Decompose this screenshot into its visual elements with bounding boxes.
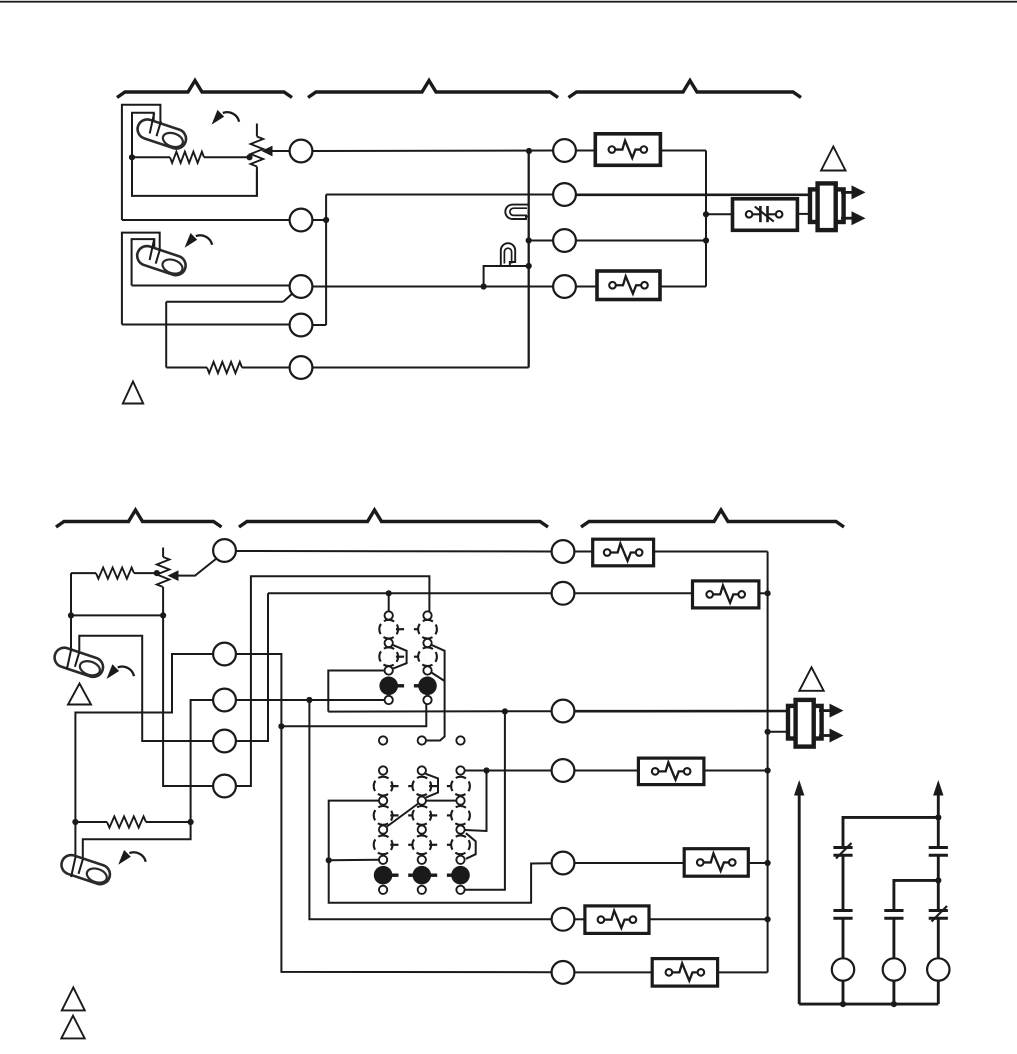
terminal B3 [552, 700, 575, 723]
wire: inner loop bottom (pot return) [132, 157, 257, 196]
wire: contactor to connector 1 [797, 213, 811, 215]
wire: right branch mid [937, 855, 940, 910]
wire: boxL5 to bus [649, 918, 768, 920]
wire: boxL3 to bus [704, 770, 768, 772]
warning triangle 5 [62, 987, 85, 1010]
wire: right branch to motor [937, 918, 940, 958]
junction: right lead y=880 [935, 877, 941, 883]
motor M3 [927, 958, 949, 980]
wire: row711 to connector 2 [574, 710, 789, 713]
motor M2 [883, 958, 905, 980]
wire: row 195 to connector 1 [576, 193, 811, 196]
resistor 3 zigzag [96, 568, 134, 579]
switch grid 2 contacts [379, 766, 387, 774]
wire: grid2 left hook row800 [329, 801, 552, 903]
resistor 4 zigzag [107, 816, 146, 827]
wire: diagonal into terminal 3 [283, 293, 293, 302]
junction: lamp2 on row 286 [481, 283, 487, 289]
junction: bus connector2 [765, 729, 771, 735]
wire: inner loop thermostat 2 [132, 239, 155, 285]
warning triangle 1 [123, 382, 143, 404]
switch grid 1 blade A [393, 645, 407, 669]
grid2 top circle C1 [379, 736, 387, 744]
wire: row 286 middle [312, 286, 553, 288]
junction: row711 x=505 [502, 708, 508, 714]
connector 1 (plug) [810, 189, 844, 222]
wire: gridB bottom loop [281, 704, 426, 726]
arrow out 2a [819, 709, 830, 712]
mercury switch 2 [135, 243, 189, 277]
wire: row 654 right to bottom [236, 654, 552, 972]
arrow out 1b [841, 217, 852, 220]
potentiometer 2 top lead [162, 548, 164, 558]
junction: pot2 bottom [160, 612, 166, 618]
heater box 2 [597, 271, 660, 300]
potentiometer 1 bottom lead [256, 167, 258, 197]
grid2 top circle C2 [418, 736, 426, 744]
junction: resistor left [129, 154, 135, 160]
junction: bus row770 [765, 767, 771, 773]
junction: x=326 row220 [323, 217, 329, 223]
junction: row593 gridA [386, 590, 392, 596]
wire: row 367 left [166, 367, 207, 369]
junction: pot2 left [154, 570, 160, 576]
wire: row 240 to bus2 [576, 240, 706, 242]
junction: bus2 row240 [703, 237, 709, 243]
junction: bus row919 [765, 916, 771, 922]
wire: x=486 down to C3 [465, 771, 487, 832]
junction: bus lamp2 [526, 263, 532, 269]
junction: resistor4 right [188, 819, 194, 825]
rotation arrow 1 [223, 112, 239, 122]
wire: box2 to bus2 [660, 286, 706, 288]
heater box 1 [595, 134, 660, 166]
indicator lamp 2 (opens down) [501, 243, 515, 266]
terminal 1 (thermostat) [290, 140, 313, 163]
arrow out 2b [819, 734, 830, 737]
resistor 4 wire right [146, 821, 191, 823]
mercury switch 4 [59, 852, 113, 886]
wiper arrow 2 [168, 570, 179, 581]
wire: outer loop thermostat 2 [122, 233, 160, 325]
potentiometer 2 bottom lead [162, 587, 164, 615]
power lead right with arrow [937, 794, 940, 848]
junction: pot 1 wiper [246, 154, 252, 160]
wire: vertical x=71 [70, 573, 72, 651]
wire: branch to middle capacitor [894, 880, 938, 910]
warning triangle 6 [61, 1016, 84, 1039]
heater box L5 [585, 906, 649, 934]
switch grid 1 linkage dashes [396, 628, 404, 630]
wire: branch to left capacitor [843, 817, 938, 847]
terminal A2 [213, 643, 236, 666]
connector 2 (plug) [788, 706, 822, 739]
switch grid 2 linkage dashes [390, 785, 398, 787]
wire: left branch to motor [842, 918, 845, 958]
brace: equipment section (top right) [569, 81, 802, 98]
wire: terminalB7 to boxL6 [574, 971, 652, 973]
wire: bus to connector 2 lower [768, 731, 789, 733]
rotation arrow 2 [196, 235, 212, 245]
heater box L1 [593, 539, 654, 566]
potentiometer 2 zigzag [157, 557, 170, 587]
wire: vertical x=326 [325, 195, 327, 326]
junction: row770 x=486 [483, 767, 489, 773]
wire: terminalB2 to boxL2 [574, 592, 692, 594]
junction: bus row240 [526, 237, 532, 243]
wire: bus2 to contactor box [706, 213, 733, 215]
contactor box (clock contact) [733, 199, 798, 231]
wire: gridA bottom to row700 (stub) [384, 699, 386, 701]
terminal B7 [552, 961, 575, 984]
wire: row 240 bus to terminal 8 [529, 240, 553, 242]
resistor 4 wire left [75, 821, 107, 823]
wire: terminalB5 to boxL4 [574, 862, 684, 864]
junction: x=71 y=615 [68, 612, 74, 618]
wire: boxL2 to bus [759, 592, 768, 594]
wire: row 593 horizontal [268, 592, 552, 594]
wire: outer loop thermostat 1 [122, 105, 160, 220]
brace: thermostat section (top left) [117, 81, 292, 98]
potentiometer 1 zigzag [251, 137, 264, 167]
switch grid 2 changeover diagonal [387, 804, 418, 827]
rotation arrow 3 [118, 667, 134, 677]
wire: motor M2 to bottom [892, 981, 895, 1004]
junction: x=328 y=860 [326, 857, 332, 863]
junction: right lead y=817 [935, 814, 941, 820]
terminal A1 [213, 539, 236, 562]
wire: boxL1 to bus [654, 551, 768, 553]
wire: C3 bottom to row 711 [465, 711, 505, 889]
junction: bottom M2 [891, 1001, 897, 1007]
junction: bus row863 [765, 860, 771, 866]
wire: box1 to bus2 [660, 150, 706, 152]
wire: row 367 right to bus [312, 367, 528, 369]
brace: equipment section (lower right) [581, 510, 844, 527]
terminal A4 [213, 730, 236, 753]
junction: bus1 top [526, 148, 532, 154]
wire: vertical x=166 down [165, 302, 167, 368]
wire: row 286 to heater box 2 [576, 286, 597, 288]
wire: lamp2 drop [484, 266, 529, 287]
terminal 6 (subbase) [553, 139, 576, 162]
switch grid 1 contacts [385, 611, 393, 619]
wire: row 741 right up to row 593 [236, 593, 268, 741]
brace: subbase section (lower middle) [239, 510, 548, 527]
switch grid 2 blade C3 [466, 833, 476, 859]
wire: y=615 horizontal [71, 614, 163, 616]
switch grid 1 blade B tap [431, 673, 444, 682]
terminal 3 (thermostat) [290, 275, 313, 298]
wire: lower route (y=301.8) [166, 301, 283, 303]
wire: gridA row670 hook [328, 671, 384, 712]
top rule line [0, 1, 1017, 3]
wire: row 711.5 to terminal B3 [328, 710, 551, 712]
rotation arrow 4 [129, 852, 145, 862]
heater box L2 [693, 581, 759, 608]
warning triangle 2 [821, 147, 845, 171]
terminal 7 (subbase) [553, 183, 576, 206]
wire: row 786 right up [236, 576, 429, 786]
wire: resistor3 to pot2 [134, 572, 160, 574]
motor M1 [832, 958, 854, 980]
wire: left branch mid [842, 855, 845, 910]
mercury switch 3 [52, 645, 106, 679]
heater box L4 [684, 849, 748, 877]
wire: terminalB4 to boxL3 [574, 770, 638, 772]
wire: row to terminal 4 (y=324.5) [122, 324, 290, 326]
wire: boxL4 to bus [748, 862, 767, 864]
resistor (thermostat 1 heat anticipator) [132, 156, 170, 158]
wire: middle branch to motor [892, 918, 895, 958]
capacitor C1 (variable, left branch) [833, 846, 852, 849]
wire: terminal4 stub [312, 324, 326, 326]
wire: row to terminal 2 (y=220) [122, 219, 290, 221]
junction: x=281 y=726 [278, 723, 284, 729]
switch grid 2 C2-C3 link row 800 [426, 800, 456, 802]
capacitor C3 (right branch upper) [929, 846, 948, 849]
terminal B1 [552, 540, 575, 563]
wire: x=309 to row 919 [309, 700, 551, 919]
wire: inner loop 2 to terminal 3 [132, 285, 290, 287]
wire: row 700 right [236, 699, 385, 701]
switch grid 2 blade C2 [426, 774, 438, 798]
wire: inner loop thermostat 1 [132, 113, 154, 158]
junction: bus2 contactor [703, 211, 709, 217]
warning triangle 4 [799, 667, 823, 691]
terminal 8 (subbase) [553, 229, 576, 252]
terminal B5 [552, 852, 575, 875]
mercury switch 1 [135, 117, 189, 151]
junction: resistor4 left [72, 819, 78, 825]
capacitor C2 (left branch lower) [833, 909, 852, 912]
junction: row700 x=309 [306, 697, 312, 703]
wire: bottom rail [799, 1003, 938, 1006]
wire: row 194 horizontal [326, 194, 553, 196]
wire: capsule3 electrode 2 loop [79, 636, 213, 741]
switch grid 2 C3 feed [465, 770, 552, 772]
wire: row 551 terminalA1 to B1 [236, 550, 552, 553]
terminal A5 [213, 775, 236, 798]
switch grid 1 blade B [426, 645, 445, 741]
brace: thermostat section (lower left) [56, 510, 222, 527]
wire: gridA top feed [388, 593, 390, 611]
wiper arrow 1 [272, 150, 291, 152]
wire: vertical x=163 to row 786 [163, 615, 213, 786]
resistor 2 zigzag [207, 362, 242, 373]
capacitor C4 (middle branch) [884, 909, 903, 912]
terminal B6 [552, 908, 575, 931]
resistor zigzag 1 [170, 152, 204, 163]
terminal B4 [552, 759, 575, 782]
wire: motor M1 to bottom [842, 981, 845, 1004]
warning triangle 3 [68, 684, 91, 705]
heater box L6 [652, 959, 717, 987]
wire: row 151 terminal1 to terminal6 [312, 150, 553, 153]
heater box L3 [638, 758, 704, 785]
power lead left with arrow [798, 794, 801, 1004]
wire: row 700 left [83, 700, 213, 859]
wire: boxL6 to bus [718, 971, 768, 973]
wire: row150 terminal6 to heater box [576, 150, 595, 152]
resistor 3 left corner [71, 572, 96, 574]
potentiometer 1 top lead [256, 124, 258, 137]
wire: resistor to pot 1 [204, 156, 253, 158]
wire: row 654 left hook [75, 654, 213, 859]
wire: row 860 stub [329, 859, 379, 862]
terminal A3 [213, 689, 236, 712]
junction: bus row593 [765, 590, 771, 596]
lower bus x=767.6 [767, 552, 769, 973]
terminal 2 (thermostat) [290, 209, 313, 232]
brace: subbase section (top middle) [308, 81, 558, 98]
terminal 9 (subbase) [553, 275, 576, 298]
vertical bus x=529 [528, 151, 530, 368]
junction: bottom M1 [840, 1001, 846, 1007]
grid2 top circle C3 [456, 736, 464, 744]
wire: row 367 to terminal 5 [242, 367, 290, 369]
indicator lamp 1 (opens right) [505, 205, 529, 219]
switch arm to pot 2 [178, 559, 217, 576]
terminal 4 (thermostat) [290, 314, 313, 337]
wire: terminalB1 to box [574, 551, 592, 553]
vertical bus x=706 [705, 151, 707, 287]
terminal B2 [552, 582, 575, 605]
terminal 5 (thermostat) [290, 356, 313, 379]
capacitor C5 (variable, right branch) [929, 909, 948, 912]
wire: terminalB6 to boxL5 [574, 918, 585, 920]
wire: terminal2 stub [312, 219, 326, 221]
arrow out 1a [841, 191, 852, 194]
wire: motor M3 to bottom [937, 981, 940, 1004]
